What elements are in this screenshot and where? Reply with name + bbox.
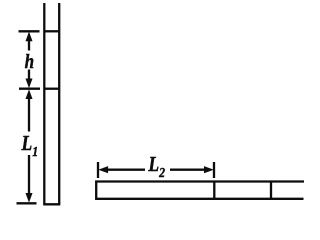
svg-text:L1: L1 — [21, 133, 39, 160]
dimension L2 right arrow shaft — [170, 169, 208, 171]
dimension L2 right arrow head — [204, 167, 213, 173]
vertical bar upper divider — [44, 30, 59, 32]
dimension tick middle (h end / L1 start) — [19, 88, 40, 90]
svg-text:L2: L2 — [147, 154, 165, 181]
dimension L2 left tick — [97, 162, 99, 178]
vertical bar bottom cap — [43, 203, 60, 205]
dimension tick top (h start) — [19, 30, 40, 32]
dimension L1 arrow down head — [26, 193, 32, 202]
dimension L1 arrow down shaft — [28, 155, 30, 195]
svg-text:h: h — [25, 51, 34, 74]
dimension L2 left arrow head — [99, 167, 108, 173]
dimension L1 arrow up shaft — [28, 95, 30, 132]
horizontal bar left cap — [95, 181, 97, 200]
dimension h arrow down head — [26, 79, 32, 88]
dimension h arrow up head — [26, 33, 32, 42]
vertical bar lower divider — [44, 88, 59, 90]
horizontal bar divider 2 — [270, 181, 272, 199]
dimension h arrow up shaft — [28, 37, 30, 51]
dimension h arrow down shaft — [28, 70, 30, 82]
vertical bar left edge — [43, 3, 45, 204]
horizontal bar top edge — [95, 180, 304, 182]
vertical bar right edge — [58, 3, 60, 204]
dimension L2 right tick — [213, 162, 215, 178]
dimension tick bottom (L1 end) — [17, 202, 37, 204]
dimension L1 arrow up head — [26, 90, 32, 99]
dimension L2 left arrow shaft — [104, 169, 145, 171]
horizontal bar divider 1 — [213, 181, 215, 199]
horizontal bar bottom edge — [95, 198, 303, 200]
